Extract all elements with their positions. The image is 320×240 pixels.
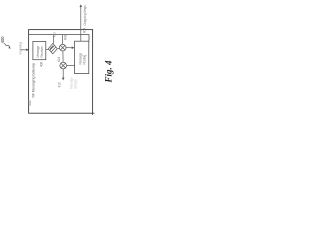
box receiver <box>33 41 46 59</box>
svg-text:414: 414 <box>57 57 61 62</box>
svg-text:402: 402 <box>28 100 32 106</box>
wire incoming arrow <box>21 49 27 51</box>
callout arrow <box>5 43 10 47</box>
wire into diamond top <box>53 35 55 44</box>
svg-text:400: 400 <box>0 36 5 44</box>
svg-text:Incoming: Incoming <box>18 42 22 54</box>
svg-text:Outgoing Msgs: Outgoing Msgs <box>83 5 87 26</box>
wire box to diamond <box>46 49 49 51</box>
svg-text:408: 408 <box>64 35 68 40</box>
svg-text:Routing: Routing <box>82 54 86 64</box>
mixer M2 <box>60 62 67 69</box>
outer box gateway <box>29 30 93 114</box>
wire mixer2 down arrow <box>62 69 64 78</box>
wire diamond to mixer1 <box>57 47 59 50</box>
box router <box>75 41 89 73</box>
inner region line <box>29 35 89 42</box>
svg-text:Storage: Storage <box>73 79 77 89</box>
wire into mixer1 top <box>62 35 64 45</box>
mixer M1 <box>59 44 66 51</box>
svg-text:416: 416 <box>58 82 62 87</box>
wire corner overshoot <box>92 113 94 115</box>
wire mixer1 to mixer2 <box>62 51 64 62</box>
wire outgoing arrow <box>80 7 82 42</box>
svg-text:406: 406 <box>40 62 44 68</box>
wire mixer1 to router box <box>66 47 72 49</box>
diamond filter <box>48 43 57 53</box>
svg-text:Fig. 4: Fig. 4 <box>104 60 114 84</box>
wire router to mixer2 <box>67 65 75 67</box>
svg-text:404: 404 <box>83 28 87 33</box>
svg-text:Receiver: Receiver <box>40 45 44 57</box>
svg-text:RF Messaging Gateway: RF Messaging Gateway <box>31 63 35 98</box>
svg-text:410: 410 <box>52 32 56 37</box>
